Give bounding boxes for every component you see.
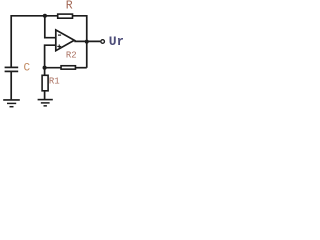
capacitor C bottom plate [5,70,19,72]
svg-text:C: C [24,63,31,75]
wire left vertical down to capacitor [10,15,12,67]
resistor R2 [61,66,75,69]
wire top horizontal from left corner to R [11,15,58,17]
op-amp minus sign [58,34,61,36]
node A junction dot top [43,14,47,18]
wire from R right side to right vertical rail [73,16,87,68]
wire op-amp output to terminal [74,40,100,42]
svg-text:R2: R2 [66,51,77,61]
wire noninverting input to node B vertical [45,45,56,67]
wire from node A down to inverting input [45,16,56,38]
svg-text:Ur: Ur [109,34,123,49]
terminal output circle [101,40,105,44]
op-amp U1 [56,30,75,51]
resistor R1 [42,75,48,91]
node output junction dot [85,40,89,44]
resistor R [58,14,73,18]
wire node B to R2 [45,67,61,69]
op-amp plus sign [57,45,61,49]
ground right [38,100,53,106]
wire capacitor to ground [10,72,12,100]
svg-text:R1: R1 [49,76,60,86]
ground left [3,100,20,107]
wire node B down to R1 [44,68,46,76]
capacitor C top plate [5,66,19,68]
wire R2 right to right vertical rail [76,67,87,69]
svg-text:R: R [66,0,73,13]
node B junction dot [43,66,47,70]
wire R1 to ground [44,91,46,99]
